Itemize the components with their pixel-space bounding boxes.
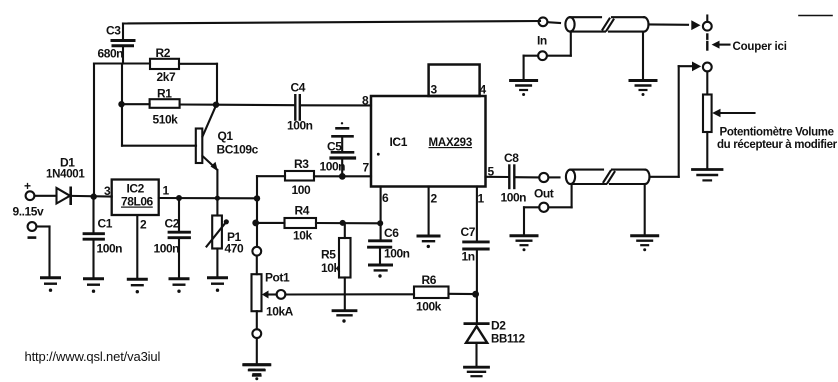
svg-text:3: 3 [431, 83, 438, 97]
svg-text:9..15v: 9..15v [13, 205, 44, 219]
svg-text:C4: C4 [291, 81, 306, 95]
svg-text:R3: R3 [294, 157, 309, 171]
svg-text:4: 4 [480, 83, 487, 97]
svg-text:D2: D2 [491, 319, 506, 333]
svg-text:BC109c: BC109c [217, 143, 259, 157]
svg-text:du récepteur à modifier: du récepteur à modifier [717, 139, 838, 151]
svg-text:6: 6 [382, 191, 389, 205]
svg-text:C6: C6 [384, 226, 399, 240]
svg-text:100n: 100n [287, 119, 313, 133]
svg-text:Out: Out [534, 187, 554, 201]
svg-text:470: 470 [225, 242, 244, 256]
svg-text:7: 7 [363, 161, 370, 175]
svg-text:Pot1: Pot1 [265, 271, 290, 285]
svg-text:http://www.qsl.net/va3iul: http://www.qsl.net/va3iul [25, 349, 161, 364]
svg-text:R4: R4 [295, 204, 310, 218]
svg-text:C7: C7 [461, 225, 476, 239]
svg-text:510k: 510k [153, 113, 179, 127]
svg-text:10kA: 10kA [266, 305, 294, 319]
svg-text:100n: 100n [154, 242, 180, 256]
svg-text:78L06: 78L06 [121, 195, 154, 209]
svg-text:R2: R2 [156, 46, 171, 60]
svg-text:Couper ici: Couper ici [733, 41, 787, 53]
svg-text:10k: 10k [321, 261, 340, 275]
svg-text:100n: 100n [320, 160, 346, 174]
svg-text:IC1: IC1 [390, 135, 408, 149]
svg-text:3: 3 [104, 184, 111, 198]
svg-text:MAX293: MAX293 [429, 137, 473, 149]
svg-text:In: In [537, 34, 547, 48]
svg-text:R5: R5 [321, 248, 336, 262]
svg-text:8: 8 [362, 94, 369, 108]
svg-text:BB112: BB112 [491, 334, 525, 346]
svg-text:100: 100 [292, 183, 311, 197]
svg-text:1N4001: 1N4001 [46, 169, 85, 181]
svg-text:1: 1 [163, 184, 170, 198]
svg-text:680n: 680n [98, 47, 124, 61]
svg-text:C8: C8 [504, 151, 519, 165]
svg-text:C3: C3 [106, 24, 121, 38]
svg-text:R6: R6 [422, 273, 437, 287]
svg-text:1n: 1n [462, 250, 475, 264]
svg-text:100n: 100n [384, 247, 410, 261]
svg-text:IC2: IC2 [127, 182, 145, 196]
svg-text:100n: 100n [501, 191, 527, 205]
svg-text:100k: 100k [416, 300, 442, 314]
svg-text:C2: C2 [165, 217, 180, 231]
svg-text:+: + [24, 179, 31, 193]
svg-text:1: 1 [478, 192, 485, 206]
svg-text:2: 2 [431, 192, 438, 206]
svg-text:5: 5 [488, 165, 495, 179]
svg-text:C1: C1 [98, 217, 113, 231]
svg-text:100n: 100n [97, 242, 123, 256]
svg-text:C5: C5 [327, 140, 342, 154]
svg-text:10k: 10k [293, 229, 312, 243]
svg-text:D1: D1 [60, 156, 75, 170]
svg-text:Potentiomètre Volume: Potentiomètre Volume [720, 127, 834, 139]
svg-text:R1: R1 [157, 87, 172, 101]
svg-text:2k7: 2k7 [157, 70, 176, 84]
svg-text:Q1: Q1 [218, 129, 234, 143]
svg-text:2: 2 [140, 218, 147, 232]
